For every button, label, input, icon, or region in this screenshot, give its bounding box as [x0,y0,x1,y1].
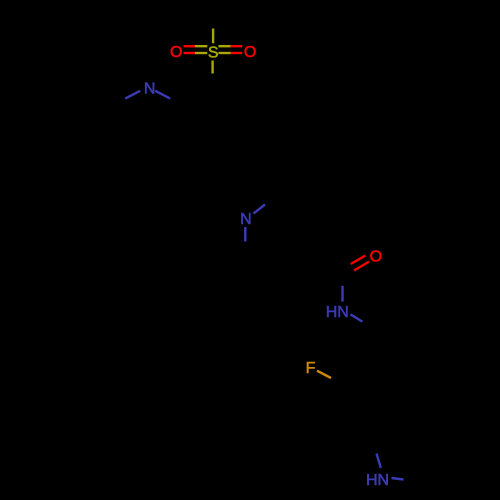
wire S=O left double bond lower (O half) [184,52,196,54]
svg-text:S: S [208,45,219,62]
svg-text:O: O [170,44,182,61]
wire indole N right bond (N half) [392,478,404,480]
svg-text:N: N [144,80,156,97]
wire pyridine N left bond (N half) [125,91,140,99]
wire pyridine N right bond (N half) [155,91,170,99]
svg-text:HN: HN [326,304,349,321]
wire S=O left double bond lower (S half) [195,52,207,54]
wire S=O right double bond lower (O half) [231,52,243,54]
wire S=O right double bond upper (O half) [231,45,243,47]
wire S=O left double bond upper (O half) [184,45,196,47]
wire S=O right double bond upper (S half) [218,45,230,47]
svg-text:O: O [244,44,256,61]
wire amide N-CH2 bond (N half) [350,314,362,321]
wire CH3-S bond (S half) [212,29,214,44]
wire indole N up bond (N half) [377,454,381,468]
svg-text:F: F [306,360,316,377]
wire S-C(aryl) bond (S half) [211,61,213,74]
wire C=O double bond lower (O half) [354,262,369,271]
wire piperidine N up-right bond (N half) [254,205,266,214]
svg-text:O: O [370,249,382,266]
wire F-C bond (F half) [317,371,331,378]
svg-text:N: N [240,211,252,228]
wire S=O left double bond upper (S half) [195,45,207,47]
wire piperidine N down bond (N half) [244,227,246,242]
wire C=O double bond upper (O half) [351,256,366,265]
wire amide C-N bond (N half) [341,286,343,302]
wire S=O right double bond lower (S half) [218,52,230,54]
svg-text:HN: HN [366,472,389,489]
